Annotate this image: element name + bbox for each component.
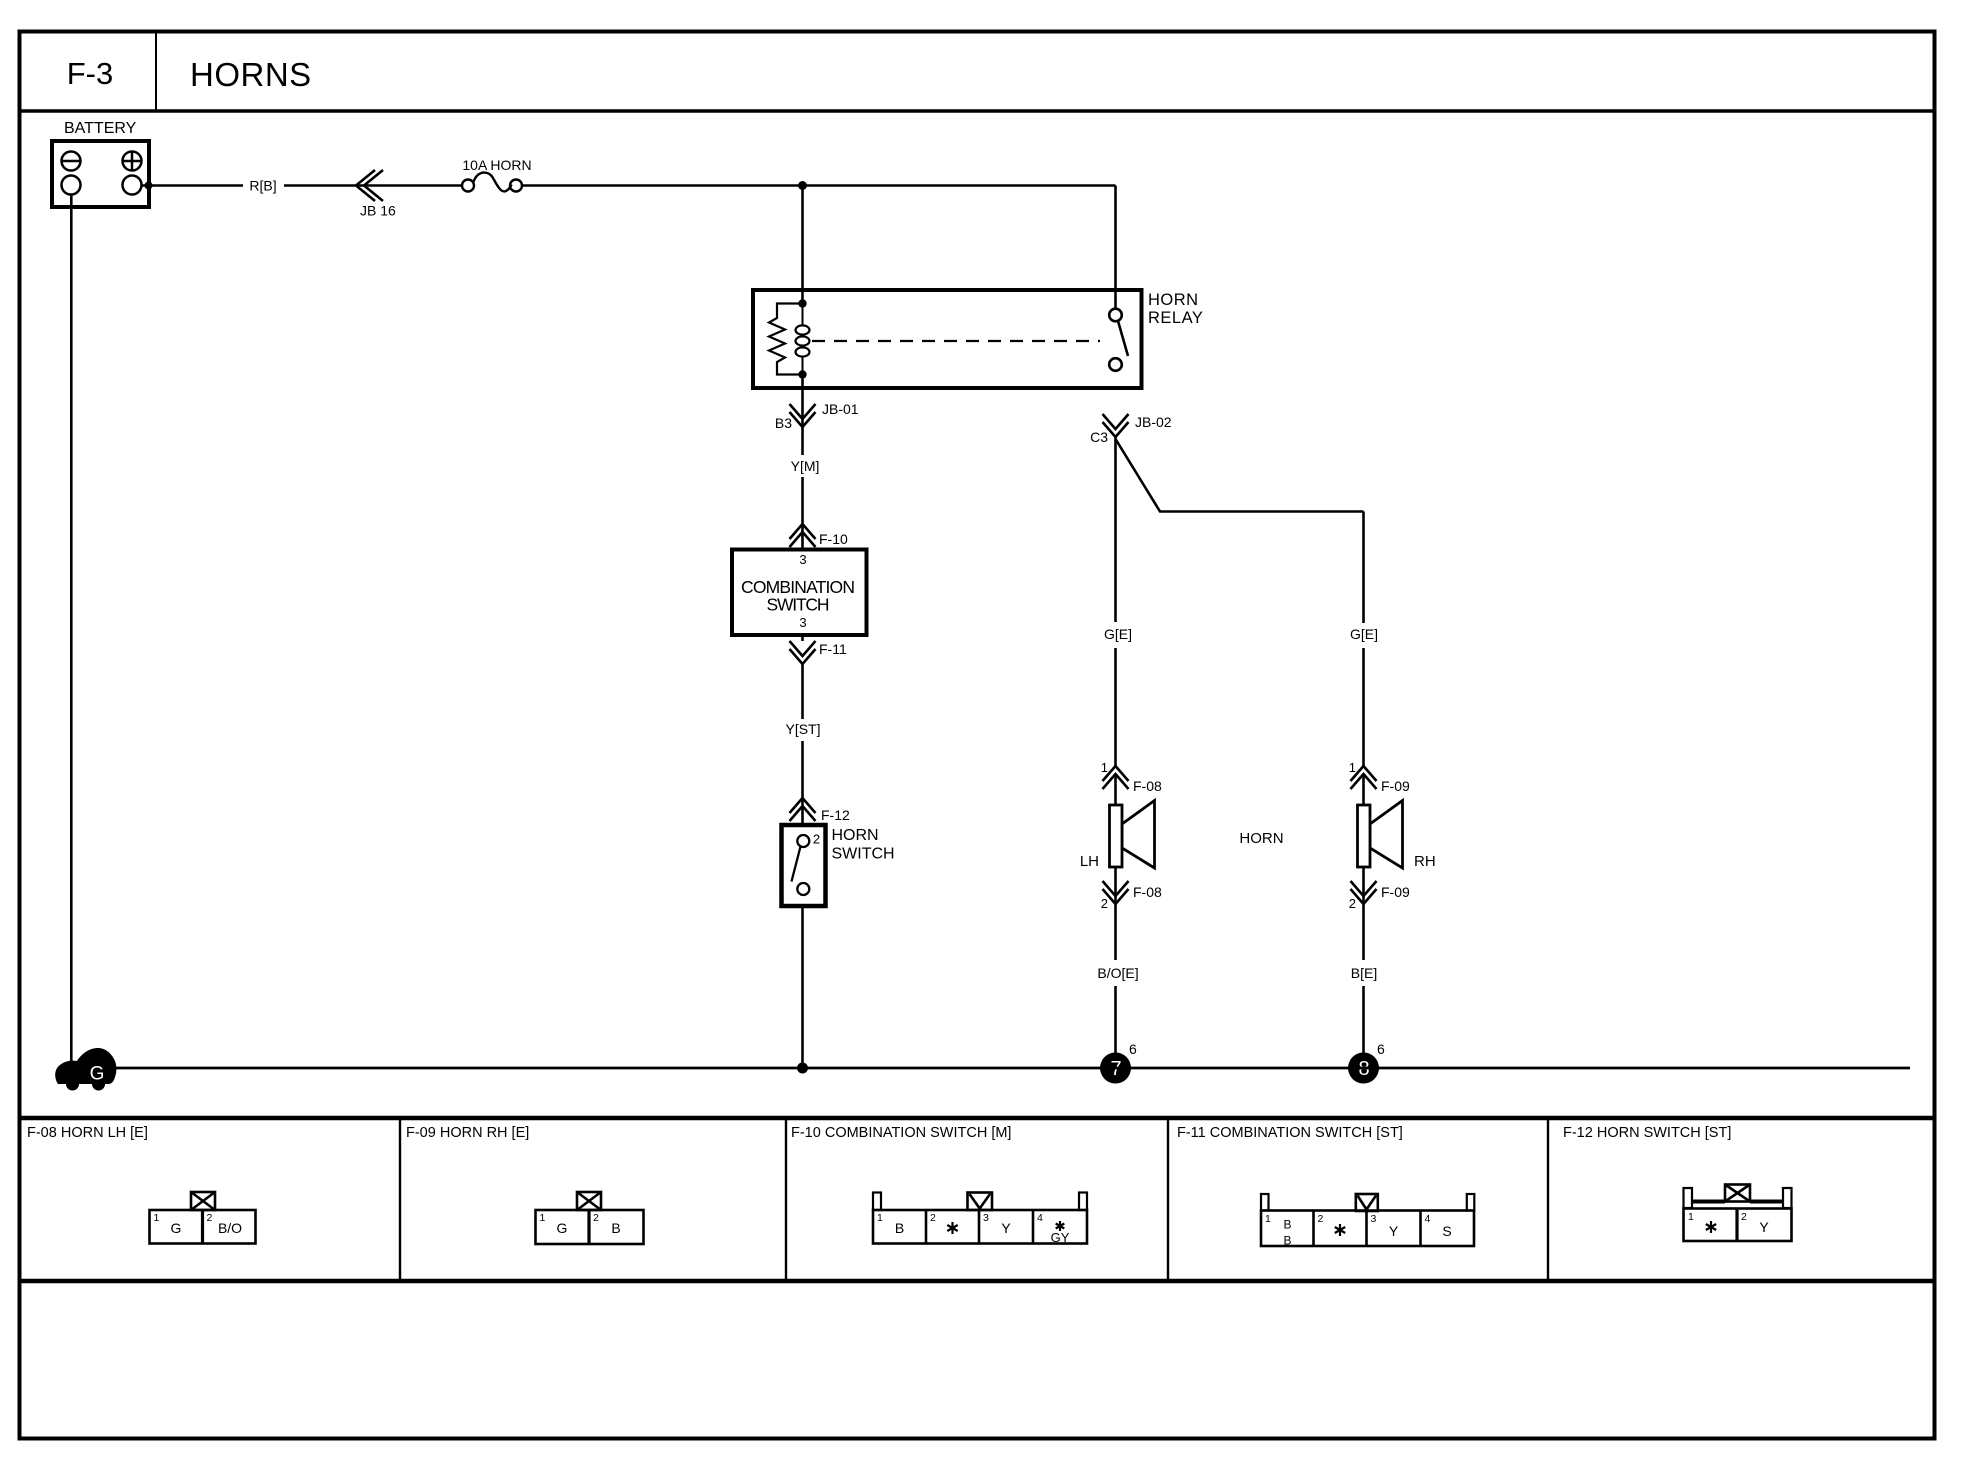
wire branch to RH horn (diagonal + horizontal) xyxy=(1116,439,1364,512)
svg-text:2: 2 xyxy=(593,1212,599,1224)
svg-text:F-09 HORN RH [E]: F-09 HORN RH [E] xyxy=(406,1125,529,1141)
F-08 pin 2 wire color B/O xyxy=(218,1220,242,1236)
svg-text:Y: Y xyxy=(1001,1220,1011,1236)
connector chevron JB 16 xyxy=(356,170,383,201)
svg-text:F-12 HORN SWITCH [ST]: F-12 HORN SWITCH [ST] xyxy=(1563,1125,1731,1141)
svg-text:SWITCH: SWITCH xyxy=(767,595,830,615)
header F-08 HORN LH [E] xyxy=(27,1125,148,1141)
connector chevron F-08 pin 2 (down) xyxy=(1103,881,1129,904)
label F-09 (top) xyxy=(1381,778,1410,794)
svg-text:G[E]: G[E] xyxy=(1350,626,1378,642)
connector F-08 pinout xyxy=(150,1192,256,1244)
wire JB-02 down to LH horn branch xyxy=(1114,437,1117,766)
svg-text:6: 6 xyxy=(1129,1041,1137,1057)
svg-text:6: 6 xyxy=(1377,1041,1385,1057)
F-11 pin number 4 xyxy=(1425,1213,1431,1225)
wire battery negative terminal to ground bus xyxy=(70,195,73,1063)
wire RH horn down xyxy=(1362,867,1365,904)
wire battery positive to fuse (with junction dot at battery) xyxy=(142,182,463,190)
F-10 pin number 2 xyxy=(930,1212,936,1224)
label B3 xyxy=(775,415,792,431)
svg-text:JB 16: JB 16 xyxy=(360,203,396,219)
horn RH speaker symbol xyxy=(1358,801,1403,869)
F-10 pin number 3 xyxy=(983,1212,989,1224)
svg-text:F-08: F-08 xyxy=(1133,778,1162,794)
svg-text:1: 1 xyxy=(1101,760,1108,775)
svg-text:4: 4 xyxy=(1425,1213,1431,1225)
svg-text:3: 3 xyxy=(799,615,806,630)
svg-text:1: 1 xyxy=(877,1212,883,1224)
svg-text:1: 1 xyxy=(1349,760,1356,775)
star pin 1 (F-12) xyxy=(1706,1221,1716,1233)
F-12 pin 2 wire color Y xyxy=(1759,1219,1769,1235)
svg-text:2: 2 xyxy=(1318,1213,1324,1225)
header F-09 HORN RH [E] xyxy=(406,1125,529,1141)
star pin 2 (F-10) xyxy=(947,1222,957,1234)
svg-text:2: 2 xyxy=(813,832,820,847)
header F-10 COMBINATION SWITCH [M] xyxy=(791,1125,1011,1141)
label 1 (F-08) xyxy=(1101,760,1108,775)
F-10 pin 4 wire color GY xyxy=(1051,1230,1070,1245)
F-10 pin 3 wire color Y xyxy=(1001,1220,1011,1236)
svg-text:F-11 COMBINATION SWITCH [ST]: F-11 COMBINATION SWITCH [ST] xyxy=(1177,1125,1403,1141)
svg-text:HORN: HORN xyxy=(832,827,879,844)
svg-text:F-12: F-12 xyxy=(821,807,850,823)
svg-text:B: B xyxy=(1283,1218,1291,1232)
svg-text:HORNS: HORNS xyxy=(190,56,312,93)
svg-text:C3: C3 xyxy=(1090,429,1108,445)
svg-text:F-09: F-09 xyxy=(1381,778,1410,794)
connector chevron JB-02 (down) xyxy=(1103,414,1129,437)
title text F-3 xyxy=(67,56,114,91)
svg-text:1: 1 xyxy=(540,1212,546,1224)
svg-text:G: G xyxy=(90,1064,105,1085)
combination switch label xyxy=(741,577,855,615)
svg-text:Y[ST]: Y[ST] xyxy=(785,721,820,737)
svg-text:S: S xyxy=(1442,1223,1451,1239)
svg-text:F-11: F-11 xyxy=(819,641,847,657)
horn LH speaker symbol xyxy=(1110,801,1155,869)
label JB 16 xyxy=(360,203,396,219)
wire label Y[ST] xyxy=(785,721,820,737)
svg-text:F-10: F-10 xyxy=(819,531,848,547)
F-10 pin number 4 xyxy=(1037,1212,1043,1224)
svg-text:RELAY: RELAY xyxy=(1148,309,1203,327)
title text HORNS xyxy=(190,56,312,93)
label 2 (F-09) xyxy=(1349,896,1356,911)
F-11 pin 3 wire color Y xyxy=(1389,1223,1399,1239)
wire F-11 to horn switch xyxy=(801,635,804,825)
label 1 (F-09) xyxy=(1349,760,1356,775)
header F-11 COMBINATION SWITCH [ST] xyxy=(1177,1125,1403,1141)
svg-text:B: B xyxy=(611,1220,620,1236)
svg-text:B[E]: B[E] xyxy=(1351,965,1377,981)
chassis ground car symbol G xyxy=(55,1048,116,1091)
connector chevron F-10 (up) xyxy=(790,524,816,547)
connector strip cell dividers xyxy=(400,1118,1548,1281)
svg-text:Y[M]: Y[M] xyxy=(791,458,820,474)
connector strip bottom border xyxy=(20,1279,1935,1284)
ground node 8 xyxy=(1348,1053,1379,1084)
label F-08 (top) xyxy=(1133,778,1162,794)
svg-text:F-3: F-3 xyxy=(67,56,114,91)
F-11 pin number 3 xyxy=(1371,1213,1377,1225)
header F-12 HORN SWITCH [ST] xyxy=(1563,1125,1731,1141)
svg-text:HORN: HORN xyxy=(1239,830,1283,847)
svg-text:F-08 HORN LH [E]: F-08 HORN LH [E] xyxy=(27,1125,148,1141)
label RH xyxy=(1414,853,1436,870)
label F-12 xyxy=(821,807,850,823)
svg-text:2: 2 xyxy=(930,1212,936,1224)
svg-text:GY: GY xyxy=(1051,1230,1070,1245)
F-11 pin 1 wire color B/B xyxy=(1283,1218,1291,1248)
F-08 pin number 1 xyxy=(154,1212,160,1224)
svg-text:G[E]: G[E] xyxy=(1104,626,1132,642)
svg-text:G: G xyxy=(171,1220,182,1236)
wire label B/O[E] xyxy=(1097,965,1138,981)
F-08 pin number 2 xyxy=(207,1212,213,1224)
label F-08 (bottom) xyxy=(1133,884,1162,900)
F-09 pin number 1 xyxy=(540,1212,546,1224)
combination switch pin 3 (bottom) xyxy=(799,615,806,630)
label HORN (center) xyxy=(1239,830,1283,847)
horn switch label xyxy=(832,827,895,863)
connector chevron F-08 pin 1 (up) xyxy=(1103,766,1129,789)
wire fuse to relay top (junction dot above coil) xyxy=(522,181,1116,190)
connector strip top border xyxy=(20,1116,1935,1121)
svg-text:2: 2 xyxy=(1101,896,1108,911)
svg-text:F-08: F-08 xyxy=(1133,884,1162,900)
svg-text:SWITCH: SWITCH xyxy=(832,846,895,863)
F-10 pin 1 wire color B xyxy=(895,1220,904,1236)
combination switch box xyxy=(732,550,867,636)
label F-09 (bottom) xyxy=(1381,884,1410,900)
svg-text:Y: Y xyxy=(1759,1219,1769,1235)
connector chevron F-11 (down) xyxy=(790,641,816,664)
horn relay box U1 xyxy=(753,290,1142,388)
battery label xyxy=(64,120,137,137)
title cell divider xyxy=(155,32,157,112)
connector F-10 pinout xyxy=(873,1193,1087,1244)
label LH xyxy=(1080,853,1099,870)
connector F-12 pinout xyxy=(1684,1185,1792,1242)
F-11 pin 4 wire color S xyxy=(1442,1223,1451,1239)
ground bus wire xyxy=(108,1067,1910,1070)
wire chevron to RH horn xyxy=(1362,774,1365,805)
svg-text:F-09: F-09 xyxy=(1381,884,1410,900)
connector F-11 pinout xyxy=(1261,1194,1474,1246)
svg-text:B/O: B/O xyxy=(218,1220,242,1236)
F-12 pin number 2 xyxy=(1741,1211,1747,1223)
svg-text:JB-02: JB-02 xyxy=(1135,414,1172,430)
F-08 pin 1 wire color G xyxy=(171,1220,182,1236)
wire label B[E] xyxy=(1351,965,1377,981)
wire label G[E] (right) xyxy=(1350,626,1378,642)
combination switch pin 3 (top) xyxy=(799,552,806,567)
connector chevron F-09 pin 1 (up) xyxy=(1351,766,1377,789)
F-09 pin 1 wire color G xyxy=(557,1220,568,1236)
svg-text:1: 1 xyxy=(1688,1211,1694,1223)
wire relay coil to chevron JB-01 xyxy=(801,375,804,428)
F-12 pin number 1 xyxy=(1688,1211,1694,1223)
svg-text:2: 2 xyxy=(1741,1211,1747,1223)
svg-text:BATTERY: BATTERY xyxy=(64,120,137,137)
svg-text:B: B xyxy=(1283,1234,1291,1248)
svg-text:B/O[E]: B/O[E] xyxy=(1097,965,1138,981)
ground node 7 xyxy=(1100,1053,1131,1084)
svg-text:R[B]: R[B] xyxy=(249,178,276,194)
fuse label 10A HORN xyxy=(462,157,531,173)
F-10 pin number 1 xyxy=(877,1212,883,1224)
svg-text:2: 2 xyxy=(207,1212,213,1224)
wire JB-01 to combination switch xyxy=(801,427,804,550)
relay label HORN RELAY xyxy=(1148,291,1203,327)
label JB-02 xyxy=(1135,414,1172,430)
svg-text:3: 3 xyxy=(799,552,806,567)
battery xyxy=(52,141,149,207)
svg-text:2: 2 xyxy=(1349,896,1356,911)
connector chevron F-09 pin 2 (down) xyxy=(1351,881,1377,904)
wire label G[E] (left) xyxy=(1104,626,1132,642)
svg-text:LH: LH xyxy=(1080,853,1099,870)
relay switch contacts xyxy=(1109,309,1128,371)
wire top line down to relay switch xyxy=(1114,186,1117,309)
label JB-01 xyxy=(822,401,859,417)
svg-text:10A HORN: 10A HORN xyxy=(462,157,531,173)
wire chevron to LH horn xyxy=(1114,774,1117,805)
label 2 (F-08) xyxy=(1101,896,1108,911)
svg-text:Y: Y xyxy=(1389,1223,1399,1239)
relay actuation dashed line xyxy=(812,340,1100,342)
wire LH horn to node 7 xyxy=(1114,904,1117,1054)
svg-text:JB-01: JB-01 xyxy=(822,401,859,417)
title bar separator line xyxy=(20,109,1935,113)
wire label Y[M] xyxy=(791,458,820,474)
svg-text:F-10 COMBINATION SWITCH [M]: F-10 COMBINATION SWITCH [M] xyxy=(791,1125,1011,1141)
svg-text:3: 3 xyxy=(1371,1213,1377,1225)
svg-text:G: G xyxy=(557,1220,568,1236)
svg-text:1: 1 xyxy=(154,1212,160,1224)
wire junction down to relay coil xyxy=(801,186,804,304)
connector chevron F-12 (up) xyxy=(790,798,816,821)
star pin 2 (F-11) xyxy=(1335,1224,1345,1236)
F-09 pin 2 wire color B xyxy=(611,1220,620,1236)
wire RH branch down xyxy=(1362,512,1365,767)
svg-text:3: 3 xyxy=(983,1212,989,1224)
svg-text:4: 4 xyxy=(1037,1212,1043,1224)
wire RH horn to node 8 xyxy=(1362,904,1365,1054)
svg-text:B3: B3 xyxy=(775,415,792,431)
wire label R[B] xyxy=(249,178,276,194)
svg-text:RH: RH xyxy=(1414,853,1436,870)
connector F-09 pinout xyxy=(536,1192,644,1244)
svg-text:B: B xyxy=(895,1220,904,1236)
wire LH horn down xyxy=(1114,867,1117,904)
svg-text:1: 1 xyxy=(1265,1213,1271,1225)
star pin 4 (F-10) xyxy=(1056,1221,1065,1231)
F-11 pin number 2 xyxy=(1318,1213,1324,1225)
label F-11 xyxy=(819,641,847,657)
F-11 pin number 1 xyxy=(1265,1213,1271,1225)
label C3 xyxy=(1090,429,1108,445)
svg-text:HORN: HORN xyxy=(1148,291,1199,309)
relay coil with parallel resistor xyxy=(769,299,810,378)
F-09 pin number 2 xyxy=(593,1212,599,1224)
connector chevron JB-01 (down) xyxy=(790,404,816,427)
label 6 (node 7) xyxy=(1129,1041,1137,1057)
horn switch pin 2 xyxy=(813,832,820,847)
label 6 (node 8) xyxy=(1377,1041,1385,1057)
wire horn switch to ground bus (junction dot) xyxy=(797,906,808,1074)
horn switch box S1 xyxy=(782,825,826,906)
fuse 10A HORN xyxy=(462,173,522,192)
label F-10 xyxy=(819,531,848,547)
